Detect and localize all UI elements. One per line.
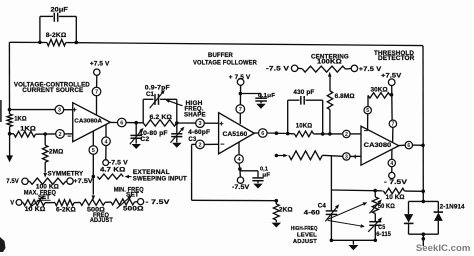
- svg-text:6-115: 6-115: [376, 232, 391, 238]
- svg-text:- 7.5V: - 7.5V: [146, 200, 170, 206]
- svg-text:SYMMETRY: SYMMETRY: [48, 172, 84, 178]
- svg-text:2KΩ: 2KΩ: [279, 207, 293, 213]
- svg-text:2: 2: [198, 142, 201, 148]
- svg-text:μF: μF: [262, 172, 270, 178]
- svg-text:-7.5V: -7.5V: [232, 185, 250, 191]
- svg-text:6: 6: [120, 121, 123, 127]
- svg-text:10 KΩ: 10 KΩ: [386, 195, 405, 201]
- svg-text:HIGH-FREQ: HIGH-FREQ: [291, 226, 318, 232]
- svg-text:C1: C1: [146, 92, 155, 98]
- svg-text:0.9-7pF: 0.9-7pF: [145, 85, 170, 91]
- svg-text:7: 7: [95, 90, 98, 96]
- svg-text:7: 7: [239, 107, 242, 113]
- svg-text:V: V: [10, 200, 14, 206]
- svg-text:+ 7.5 V: + 7.5 V: [229, 75, 251, 81]
- svg-text:3: 3: [58, 108, 61, 114]
- svg-text:CURRENT SOURCE: CURRENT SOURCE: [22, 88, 83, 94]
- svg-text:10 KΩ: 10 KΩ: [25, 207, 46, 213]
- svg-text:SWEEPING INPUT: SWEEPING INPUT: [133, 177, 187, 183]
- svg-text:+7.5V: +7.5V: [73, 179, 92, 185]
- svg-text:4-60: 4-60: [304, 211, 321, 217]
- svg-text:+7.5 V: +7.5 V: [359, 67, 382, 73]
- svg-text:100 KΩ: 100 KΩ: [36, 185, 59, 191]
- svg-text:SeekIC.com: SeekIC.com: [416, 243, 471, 254]
- svg-text:50 KΩ: 50 KΩ: [378, 204, 395, 210]
- svg-text:−: −: [220, 139, 224, 148]
- svg-text:SHAPE: SHAPE: [184, 113, 206, 119]
- svg-text:−: −: [67, 132, 71, 141]
- svg-text:BUFFER: BUFFER: [208, 53, 234, 59]
- svg-text:- 7.5V: - 7.5V: [384, 180, 407, 186]
- svg-text:4: 4: [390, 161, 393, 167]
- svg-text:100KΩ: 100KΩ: [317, 60, 342, 66]
- svg-text:4-60pF: 4-60pF: [188, 130, 210, 136]
- svg-text:2: 2: [58, 132, 61, 138]
- svg-text:6.2 KΩ: 6.2 KΩ: [150, 115, 173, 121]
- svg-text:C3: C3: [188, 137, 197, 143]
- svg-text:LEVEL: LEVEL: [297, 233, 318, 239]
- svg-text:500Ω: 500Ω: [123, 207, 144, 213]
- svg-text:3: 3: [198, 121, 201, 127]
- svg-text:430 pF: 430 pF: [293, 90, 314, 96]
- svg-text:+7.5 V: +7.5 V: [90, 61, 110, 67]
- svg-text:DETECTOR: DETECTOR: [378, 56, 415, 62]
- svg-text:-7.5 V: -7.5 V: [266, 67, 289, 73]
- svg-text:1KΩ: 1KΩ: [20, 126, 36, 132]
- svg-text:7: 7: [391, 122, 394, 128]
- svg-text:2MΩ: 2MΩ: [49, 150, 64, 156]
- svg-text:4.7 KΩ: 4.7 KΩ: [100, 168, 125, 174]
- svg-text:6.8MΩ: 6.8MΩ: [335, 94, 355, 100]
- svg-text:6-2KΩ: 6-2KΩ: [56, 207, 76, 213]
- svg-text:CA5160: CA5160: [223, 131, 248, 138]
- svg-text:+7.5V: +7.5V: [381, 74, 401, 80]
- svg-text:20μF: 20μF: [51, 8, 69, 14]
- svg-text:6: 6: [261, 131, 264, 137]
- svg-text:+: +: [219, 119, 223, 128]
- svg-text:10KΩ: 10KΩ: [296, 123, 312, 129]
- svg-text:CA3080A: CA3080A: [74, 119, 102, 125]
- svg-text:6: 6: [407, 143, 410, 149]
- svg-text:3: 3: [345, 154, 348, 160]
- svg-text:7.5V: 7.5V: [6, 179, 19, 185]
- svg-text:C5: C5: [378, 225, 385, 231]
- svg-text:30KΩ: 30KΩ: [371, 87, 388, 93]
- svg-text:8-2KΩ: 8-2KΩ: [46, 33, 67, 39]
- svg-text:SET: SET: [126, 192, 139, 198]
- svg-text:5: 5: [366, 108, 369, 114]
- svg-text:0.1μF: 0.1μF: [258, 93, 276, 99]
- svg-text:ADJUST: ADJUST: [293, 239, 317, 245]
- svg-text:VOLTAGE FOLLOWER: VOLTAGE FOLLOWER: [193, 61, 258, 67]
- svg-text:+: +: [353, 152, 357, 161]
- svg-text:ADJUST: ADJUST: [90, 218, 113, 224]
- svg-text:C2: C2: [140, 137, 150, 143]
- svg-text:2-1N914: 2-1N914: [440, 205, 466, 211]
- svg-text:+: +: [72, 105, 76, 114]
- svg-text:1KΩ: 1KΩ: [14, 117, 27, 123]
- svg-text:5: 5: [92, 148, 95, 154]
- svg-text:CA3080: CA3080: [364, 142, 392, 149]
- svg-text:EXTERNAL: EXTERNAL: [133, 170, 170, 176]
- svg-text:2: 2: [345, 132, 348, 138]
- svg-text:C4: C4: [318, 204, 327, 210]
- svg-text:-7.5 V: -7.5 V: [109, 160, 128, 166]
